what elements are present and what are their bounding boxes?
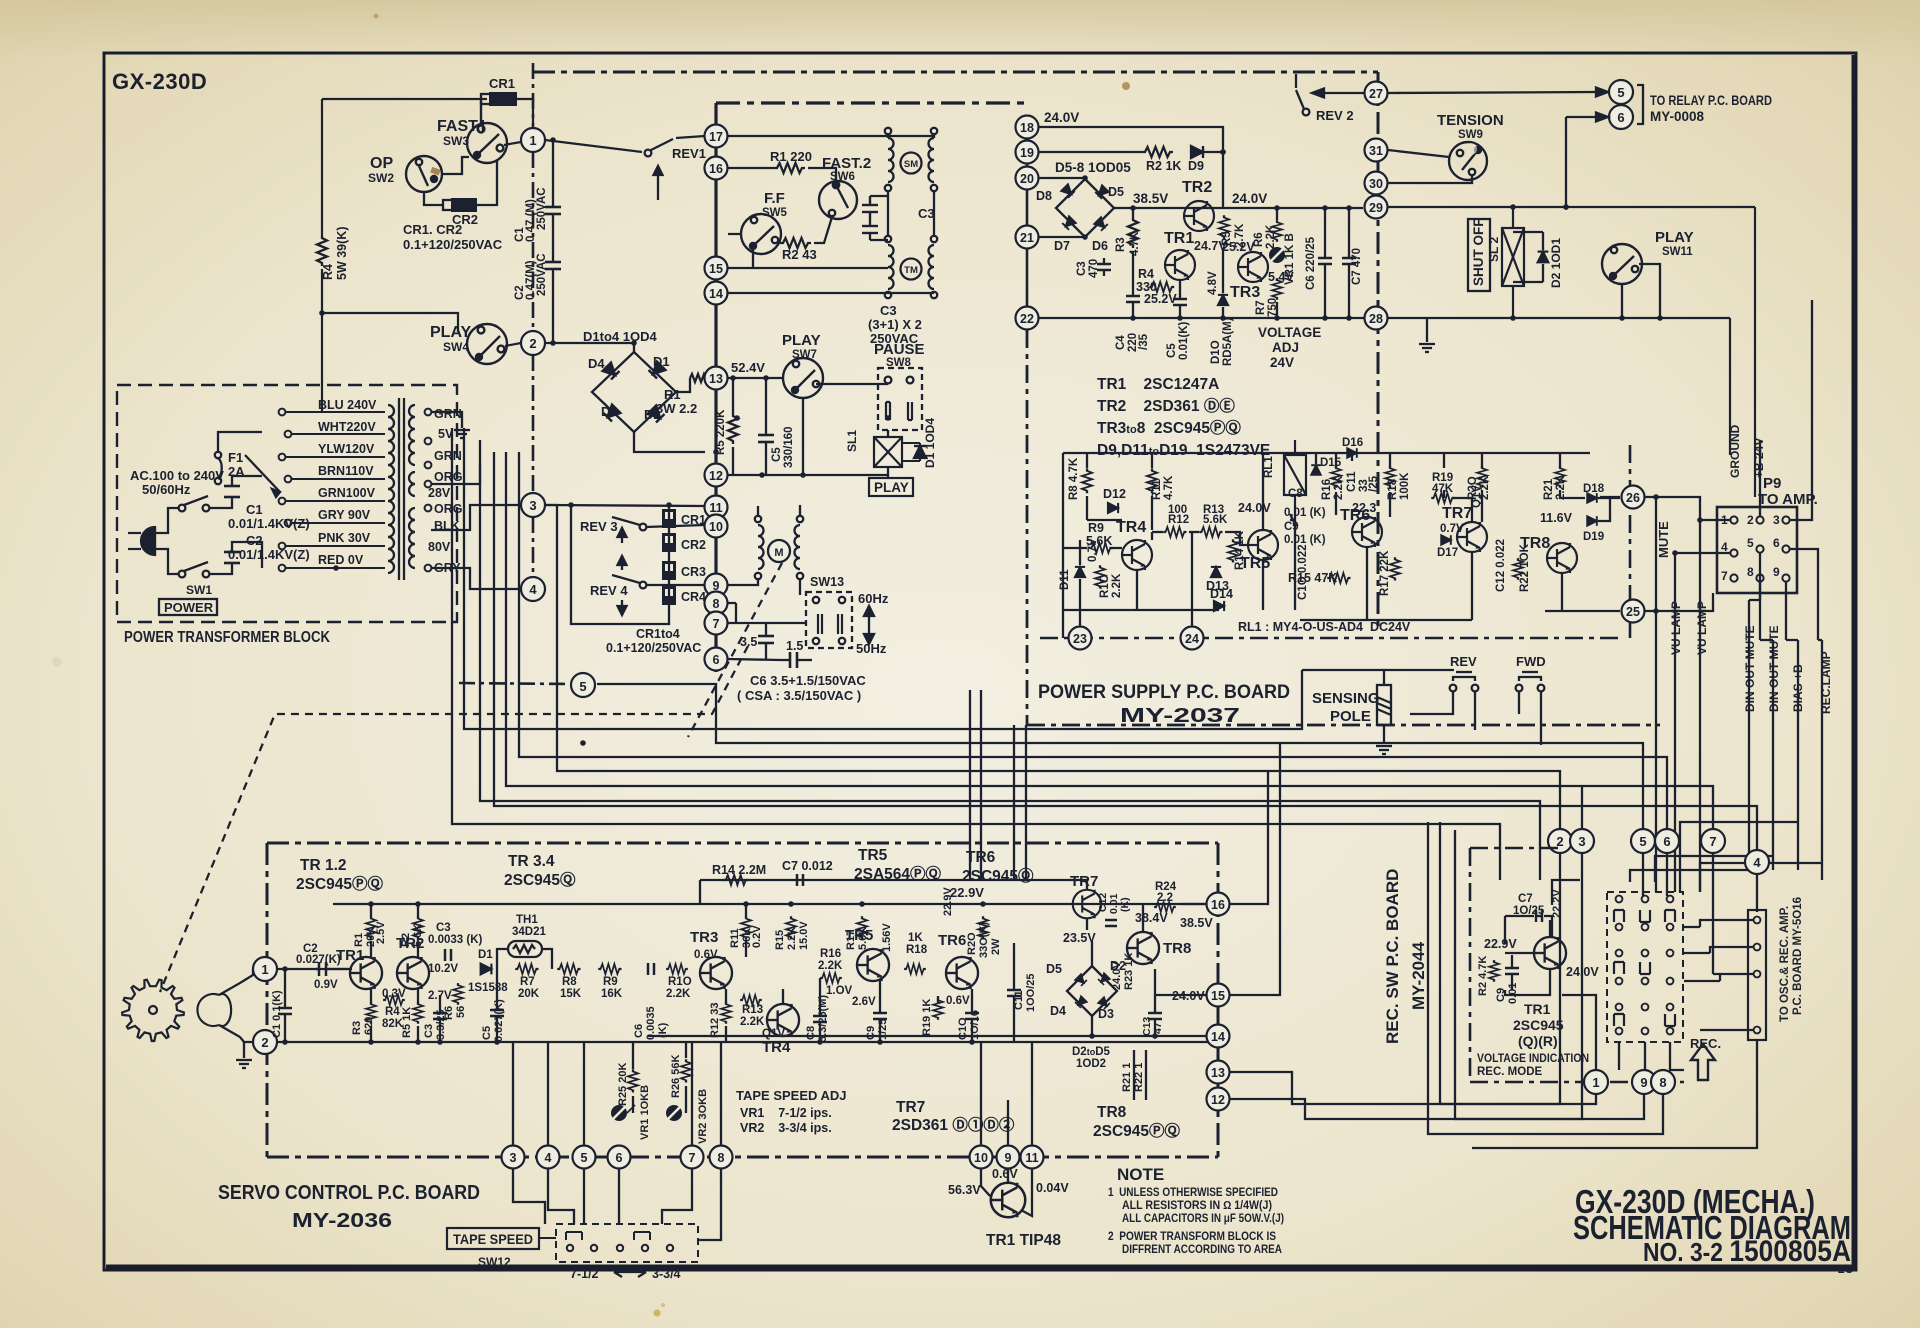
resistor R2 1K <box>1142 147 1173 157</box>
ground sensing pole <box>1376 746 1392 754</box>
svg-text:C6 220/25: C6 220/25 <box>1305 236 1317 290</box>
right connector strip <box>1748 910 1766 1040</box>
svg-text:D3: D3 <box>601 404 618 419</box>
node 3 rec <box>1570 829 1594 853</box>
wire psu drop b <box>980 690 982 880</box>
node 2 servo <box>253 1030 277 1054</box>
node 12 <box>705 464 728 487</box>
wire node15 rail <box>728 267 888 269</box>
svg-text:620: 620 <box>363 1017 375 1035</box>
svg-text:R16: R16 <box>820 948 841 960</box>
svg-text:R9: R9 <box>603 976 618 988</box>
power switch SW1 upper half <box>179 496 210 511</box>
svg-text:CR4: CR4 <box>681 590 706 604</box>
svg-text:38.5V: 38.5V <box>1180 916 1213 930</box>
svg-text:R12 33: R12 33 <box>709 1003 721 1038</box>
capacitor C11 100/25 vertical <box>1007 962 1021 1042</box>
svg-text:250VAC: 250VAC <box>536 253 548 296</box>
svg-text:D3: D3 <box>1098 1007 1114 1021</box>
svg-text:2.2K: 2.2K <box>1265 224 1277 249</box>
transistor TR6 servo <box>946 957 978 989</box>
svg-text:33O(K): 33O(K) <box>978 922 990 958</box>
wire P9 pin8 down <box>1759 582 1761 640</box>
node 8 servo <box>710 1146 733 1169</box>
svg-text:SW5: SW5 <box>762 207 788 219</box>
svg-text:TENSION: TENSION <box>1437 112 1504 129</box>
wire node4 to REV4 <box>545 588 571 590</box>
svg-text:TM: TM <box>904 265 918 276</box>
svg-text:R17: R17 <box>845 930 857 950</box>
svg-text:25.2V: 25.2V <box>1144 292 1177 306</box>
wire SL1 bottom <box>887 467 889 478</box>
servo input rail <box>277 968 352 970</box>
svg-text:D2: D2 <box>1110 959 1126 973</box>
connector P9 box <box>1717 507 1797 593</box>
svg-text:60Hz: 60Hz <box>858 591 889 606</box>
svg-text:R14 2.2M: R14 2.2M <box>712 863 766 877</box>
wire node20 to bridge top <box>1039 177 1085 179</box>
svg-text:R1O: R1O <box>1099 574 1111 598</box>
sensing pole component <box>1377 670 1391 744</box>
svg-text:27: 27 <box>1369 87 1383 101</box>
wire bundle to node6rec <box>519 452 1667 829</box>
svg-text:0.01 (K): 0.01 (K) <box>1284 534 1326 546</box>
connector grid dashed box <box>1607 892 1683 1042</box>
svg-text:PLAY: PLAY <box>430 324 472 341</box>
svg-text:/35: /35 <box>1138 333 1150 350</box>
svg-text:D18: D18 <box>1583 483 1605 495</box>
P9 pin 5 <box>1747 536 1764 553</box>
svg-text:ORG: ORG <box>434 470 462 484</box>
wire node27 to node5 with arrow <box>1388 88 1608 97</box>
capacitor C8 3.3/25(M) vertical <box>813 1005 827 1042</box>
node 26 <box>1622 486 1645 509</box>
node 5 to relay <box>1609 80 1633 104</box>
wire node12 rail <box>728 474 888 476</box>
svg-text:R3: R3 <box>351 1021 363 1035</box>
transistor TR2 <box>1184 201 1214 231</box>
svg-text:SW2: SW2 <box>368 171 394 185</box>
resistor R11 36K vertical <box>741 916 751 939</box>
node 5 <box>571 673 595 697</box>
svg-text:C11: C11 <box>1013 990 1025 1010</box>
capacitor 3.5 <box>758 623 774 660</box>
svg-text:C3: C3 <box>1076 261 1088 276</box>
node 1 <box>521 128 545 152</box>
svg-text:1: 1 <box>529 133 536 148</box>
node 6 servo <box>608 1146 631 1169</box>
svg-text:REV 2: REV 2 <box>1316 108 1354 123</box>
node 9 rec bottom <box>1632 1070 1656 1094</box>
capacitor C9 1/25 vertical <box>873 1000 887 1042</box>
wires M motor <box>728 505 805 624</box>
svg-text:R2O: R2O <box>966 932 978 955</box>
node 22 <box>1016 307 1039 330</box>
wire node21 to bridge bottom <box>1039 236 1085 238</box>
P9 pin 1 <box>1721 513 1738 527</box>
svg-text:7: 7 <box>689 1151 696 1165</box>
svg-text:2.7K: 2.7K <box>1234 223 1246 248</box>
wire relay mid connections <box>1063 453 1620 638</box>
wire bundle to recboard b <box>452 428 1500 880</box>
wire sensing rail <box>1302 669 1454 671</box>
svg-text:R8 4.7K: R8 4.7K <box>1068 457 1080 500</box>
wire node2 to bridge <box>545 343 634 352</box>
ground node28 rail <box>1426 318 1428 342</box>
node 4 servo <box>537 1146 560 1169</box>
node 10 <box>705 515 728 538</box>
svg-text:D15: D15 <box>1320 457 1342 469</box>
svg-text:BRN110V: BRN110V <box>318 464 374 478</box>
wire node15 rail <box>1155 994 1207 996</box>
capacitor C13 47 vertical <box>1148 1000 1162 1035</box>
resistor R12 100 <box>1163 527 1186 537</box>
wire BLK to node 3 <box>431 505 521 530</box>
svg-text:8: 8 <box>1659 1075 1666 1090</box>
svg-text:13: 13 <box>709 372 723 386</box>
node 18 <box>1016 116 1039 139</box>
svg-text:24.0V: 24.0V <box>1044 110 1079 125</box>
switch SW11 PLAY <box>1602 244 1642 284</box>
svg-text:56.3V: 56.3V <box>948 1183 981 1197</box>
svg-text:TR8: TR8 <box>1097 1104 1127 1121</box>
node 14 <box>705 282 728 305</box>
servo top rail 22.9V <box>333 903 1218 905</box>
svg-text:100K: 100K <box>1399 472 1411 500</box>
svg-text:C3: C3 <box>436 922 451 934</box>
svg-text:C1: C1 <box>246 502 263 517</box>
board boundary dash-dot vertical <box>532 63 535 128</box>
wire servo node15 uplink <box>1230 743 1280 995</box>
wire node8 return <box>1302 810 1663 1134</box>
wires SM TM verticals <box>870 192 934 240</box>
svg-text:6: 6 <box>616 1151 623 1165</box>
svg-text:2SA564ⓅⓆ: 2SA564ⓅⓆ <box>854 864 942 883</box>
svg-text:0.01/1.4KV(Z): 0.01/1.4KV(Z) <box>228 547 310 562</box>
svg-text:R7: R7 <box>520 976 535 988</box>
svg-text:R19 1K: R19 1K <box>921 999 933 1036</box>
wire node22 bottom rail <box>1039 317 1364 319</box>
svg-text:56: 56 <box>455 1006 467 1018</box>
diode D1 1S1588 <box>481 964 492 975</box>
svg-text:R1 220: R1 220 <box>770 149 812 164</box>
pushbutton FWD <box>1516 672 1545 691</box>
svg-text:D19: D19 <box>1583 531 1604 543</box>
svg-text:PLAY: PLAY <box>782 332 821 349</box>
svg-text:14: 14 <box>709 287 723 301</box>
wire DIN2 return <box>1655 856 1773 882</box>
wire REC lamp drop <box>1818 640 1822 880</box>
solenoid SL2 <box>1502 207 1524 318</box>
resistor R21 2.2K vertical <box>1555 466 1565 488</box>
relay row top rail <box>1063 452 1590 454</box>
svg-text:R5 1K: R5 1K <box>401 1007 413 1038</box>
diode D1 10D4 <box>914 446 926 458</box>
wire node1 to REV1 <box>545 140 642 152</box>
svg-text:R6: R6 <box>1253 232 1265 247</box>
svg-text:0.01: 0.01 <box>1507 983 1519 1004</box>
wire R5 <box>732 378 734 475</box>
primary tap wires <box>286 412 385 568</box>
svg-text:23: 23 <box>1073 632 1087 646</box>
transformer T1 primary winding <box>388 405 394 573</box>
pushbutton REV <box>1450 672 1479 691</box>
wire SW7 to SL1 <box>802 398 804 475</box>
motor SM circle <box>901 153 922 174</box>
primary tap terminals <box>279 409 292 572</box>
svg-text:SW9: SW9 <box>1458 129 1483 141</box>
wire servo node16 uplink <box>1230 771 1268 904</box>
svg-text:3: 3 <box>510 1151 517 1165</box>
svg-text:TR6: TR6 <box>1340 507 1370 524</box>
svg-text:2.6V: 2.6V <box>852 996 876 1008</box>
svg-text:13: 13 <box>1211 1066 1225 1080</box>
capacitor CR2 black <box>662 533 706 552</box>
wire mute drop <box>1655 497 1657 892</box>
wire node9 return <box>1455 830 1644 1119</box>
svg-text:R1: R1 <box>353 933 365 947</box>
resistor R19 1K vertical <box>933 998 943 1020</box>
capacitor C5 0.027(K) vertical <box>490 969 504 1042</box>
wire VU drops into rec <box>1675 835 1700 892</box>
wire P9 pin3 right-up <box>1790 300 1812 520</box>
node 9 <box>705 574 728 597</box>
transistor TR1 servo <box>350 957 382 989</box>
resistor R13 5.6K <box>1199 527 1222 537</box>
wire C7 loop <box>1505 880 1580 944</box>
svg-text:D1to4 1OD4: D1to4 1OD4 <box>583 329 657 344</box>
switch REV2 <box>1296 74 1309 115</box>
svg-text:VR1 1K B: VR1 1K B <box>1284 233 1296 285</box>
svg-text:(K): (K) <box>1119 897 1131 912</box>
resistor R1 20K vertical <box>366 916 376 939</box>
motor M circle <box>768 540 790 562</box>
wire psu drop d <box>1025 725 1027 880</box>
PSU node column bus <box>1026 115 1029 330</box>
svg-text:SL 2: SL 2 <box>1487 237 1501 262</box>
svg-text:SL1: SL1 <box>845 430 859 452</box>
svg-text:R21: R21 <box>1543 478 1555 500</box>
pot VR1 10KB <box>611 1105 627 1121</box>
svg-text:C9: C9 <box>865 1026 877 1040</box>
wire GRN top to ground <box>431 412 462 428</box>
wire BIAS return <box>1680 822 1798 892</box>
svg-text:R26 56K: R26 56K <box>670 1055 682 1098</box>
node 8 rec bottom <box>1651 1070 1675 1094</box>
resistor R12 33 vertical <box>721 1002 731 1024</box>
wire head to node2 <box>240 1037 253 1042</box>
svg-text:4: 4 <box>1753 855 1761 870</box>
wire RED 0V junction dot <box>333 565 339 571</box>
svg-text:GRN100V: GRN100V <box>318 486 376 500</box>
svg-text:D12: D12 <box>1103 487 1126 501</box>
svg-text:14: 14 <box>1211 1030 1225 1044</box>
svg-text:3-3/4: 3-3/4 <box>652 1267 681 1281</box>
wire bridge right to R1 <box>676 378 690 392</box>
wire node5 dash stub <box>459 683 569 684</box>
resistor R8 4.7K <box>1082 468 1092 493</box>
svg-text:D5-8 1OD05: D5-8 1OD05 <box>1055 160 1131 175</box>
node 2 rec <box>1548 829 1572 853</box>
svg-text:2.5V: 2.5V <box>375 921 387 944</box>
P9 pin 4 <box>1721 540 1738 557</box>
svg-text:15.0V: 15.0V <box>798 921 810 950</box>
connector bracket contacts <box>1614 910 1675 1026</box>
svg-text:TR6: TR6 <box>938 932 966 949</box>
svg-text:8: 8 <box>1747 565 1754 579</box>
node 7 servo <box>681 1146 704 1169</box>
svg-text:AC.100 to 240V: AC.100 to 240V <box>130 468 224 483</box>
svg-text:5W 39(K): 5W 39(K) <box>335 227 349 280</box>
svg-text:C12 0.022: C12 0.022 <box>1495 539 1507 592</box>
svg-text:0.1+120/250VAC: 0.1+120/250VAC <box>606 641 701 655</box>
wire R4 into transformer block <box>321 313 323 412</box>
switch SW3 FAST.1 <box>467 101 507 163</box>
transistor TR2 servo <box>397 957 429 989</box>
wires strip to grid <box>1684 920 1753 1030</box>
svg-text:4.7K: 4.7K <box>1163 475 1175 500</box>
svg-text:C1 0.1(K): C1 0.1(K) <box>271 990 283 1038</box>
svg-text:16K: 16K <box>601 988 623 1000</box>
capacitor C4 220/35 <box>1126 251 1140 318</box>
svg-text:20: 20 <box>1020 172 1034 186</box>
svg-text:38.5V: 38.5V <box>1133 191 1168 206</box>
svg-text:C11: C11 <box>1346 471 1358 492</box>
secondary tap labels <box>428 407 462 575</box>
svg-text:TR3: TR3 <box>1230 284 1260 301</box>
svg-text:D16: D16 <box>1342 437 1363 449</box>
svg-text:MY-2044: MY-2044 <box>1409 941 1428 1010</box>
svg-text:C4: C4 <box>1115 335 1127 350</box>
svg-text:6: 6 <box>713 653 720 667</box>
svg-text:3: 3 <box>1773 513 1780 527</box>
wire DIN drop 1 <box>1748 600 1750 870</box>
svg-text:17: 17 <box>709 130 723 144</box>
svg-text:5: 5 <box>1747 536 1754 550</box>
svg-text:GX-230D: GX-230D <box>112 69 207 94</box>
svg-text:SW6: SW6 <box>830 171 855 183</box>
svg-text:P.C. BOARD MY-5O16: P.C. BOARD MY-5O16 <box>1792 897 1804 1015</box>
svg-text:ORG: ORG <box>434 502 462 516</box>
svg-text:R6: R6 <box>443 1006 455 1020</box>
svg-text:9: 9 <box>1773 565 1780 579</box>
svg-text:PAUSE: PAUSE <box>874 341 925 358</box>
wire SW3 to node1 <box>504 142 521 145</box>
diode D19 <box>1587 516 1597 526</box>
resistor R22 10K vertical <box>1513 558 1523 580</box>
transistor TR1 TIP48 <box>991 1183 1026 1218</box>
wire node7 to SW13 <box>728 622 806 624</box>
PSU board boundary dash-dot left <box>1026 330 1029 725</box>
node 13 servo <box>1207 1061 1230 1084</box>
svg-text:1OD2: 1OD2 <box>1076 1058 1106 1070</box>
capacitor C6 0.0035(K) <box>648 963 654 975</box>
svg-text:TR3to8 2SC945ⓅⓆ: TR3to8 2SC945ⓅⓆ <box>1097 418 1241 437</box>
svg-text:16: 16 <box>1211 898 1225 912</box>
switch SW8 PAUSE dashed box <box>878 368 922 430</box>
node 31 <box>1365 139 1388 162</box>
capacitor C2 0.47 <box>545 255 561 343</box>
capacitor C3 3.3/25 vertical <box>433 995 447 1042</box>
wire R2 to SW6 <box>814 217 832 243</box>
diode D14 <box>1214 601 1224 611</box>
wire plug to switches <box>155 508 178 574</box>
node 16 <box>705 157 728 180</box>
bridge rectifier D5-8 <box>1056 179 1114 237</box>
switch REV1 <box>645 139 673 200</box>
bridge rectifier D1to4 10D4 <box>592 352 676 432</box>
capacitor C3b motor <box>862 226 878 233</box>
wire CR1 to node 1 <box>517 99 533 126</box>
wire strip bottom return <box>1472 1040 1757 1148</box>
motor TM coils <box>885 236 937 298</box>
svg-text:2: 2 <box>529 336 536 351</box>
transformer secondary winding upper <box>409 405 415 465</box>
motor SM coils <box>885 128 937 191</box>
svg-text:28: 28 <box>1369 312 1383 326</box>
capacitor C3 470 <box>1097 258 1111 276</box>
switch SW2 OP <box>406 156 442 192</box>
capacitor CR1 black <box>662 509 706 528</box>
svg-text:VR2 3OKB: VR2 3OKB <box>697 1089 709 1144</box>
capacitor CR2 spark killer (black) <box>443 198 478 227</box>
capacitor C5 0.01(K) <box>1173 280 1187 318</box>
svg-text:5.6K: 5.6K <box>857 927 869 950</box>
svg-text:TR1: TR1 <box>1524 1001 1551 1017</box>
diode D17 <box>1441 535 1451 545</box>
svg-text:SW12: SW12 <box>478 1255 511 1269</box>
svg-text:R7: R7 <box>1255 300 1267 315</box>
bridge rectifier D2toD5 servo <box>1067 966 1117 1016</box>
svg-text:R18: R18 <box>1387 478 1399 500</box>
resistor R6 56 vertical <box>453 983 463 1005</box>
svg-text:1OO/25: 1OO/25 <box>1025 973 1037 1012</box>
wire right drop x1755 <box>1754 207 1756 497</box>
node 15 servo <box>1207 984 1230 1007</box>
svg-text:R2 4.7K: R2 4.7K <box>1477 956 1489 996</box>
resistor R20 330(K) 2W vertical <box>978 916 988 939</box>
svg-text:0.01(K): 0.01(K) <box>1178 321 1190 360</box>
capacitor C3 coupling <box>445 949 451 961</box>
secondary wires to nodes <box>431 412 521 589</box>
wire R4 top <box>321 99 323 235</box>
svg-text:11: 11 <box>1025 1151 1038 1165</box>
resistor R13 2.2K <box>740 995 762 1005</box>
svg-text:9: 9 <box>1640 1075 1647 1090</box>
capacitor C2 line filter <box>209 542 262 574</box>
svg-text:SM: SM <box>904 159 918 170</box>
svg-text:PLAY: PLAY <box>1655 229 1694 246</box>
node 8 <box>705 592 728 615</box>
svg-text:SENSING: SENSING <box>1312 690 1380 707</box>
capacitor C1 line filter <box>209 476 262 508</box>
transistor TR5 servo <box>857 949 889 981</box>
resistor R5 220K vertical <box>728 413 738 444</box>
node 7 rec <box>1701 829 1725 853</box>
svg-text:C9: C9 <box>1284 521 1299 533</box>
resistor R2 43 <box>780 238 811 248</box>
resistor R6 2.7K vertical <box>1219 215 1229 238</box>
svg-text:470: 470 <box>1088 259 1100 278</box>
relay board dash-dot bottom through nodes 23 24 <box>1040 637 1620 640</box>
svg-text:CR1: CR1 <box>681 513 706 527</box>
svg-text:PNK 30V: PNK 30V <box>318 531 371 545</box>
wire relay interconnects <box>1063 453 1620 570</box>
resistor R16 2.2K vertical <box>1331 466 1341 488</box>
thermistor TH1 34D21 <box>508 941 542 957</box>
svg-text:M: M <box>774 547 783 559</box>
svg-text:D9,D11toD19 1S2473VE: D9,D11toD19 1S2473VE <box>1097 442 1270 459</box>
